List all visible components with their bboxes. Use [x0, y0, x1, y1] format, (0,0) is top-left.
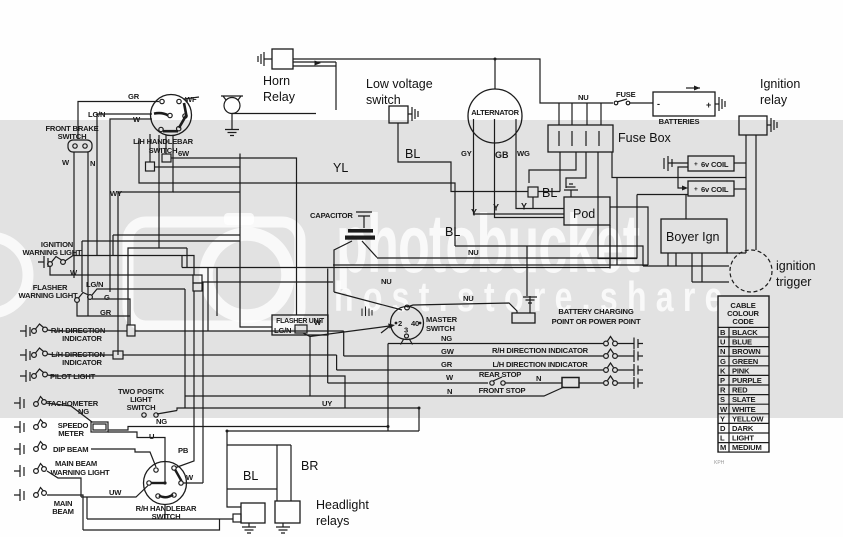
fuse F1 — [614, 99, 630, 105]
svg-text:SWITCH: SWITCH — [152, 512, 181, 521]
wire fusebox top legs — [559, 103, 601, 125]
svg-text:POINT OR POWER POINT: POINT OR POWER POINT — [552, 317, 641, 326]
svg-text:INDICATOR: INDICATOR — [62, 358, 102, 367]
coil L1 6v COIL — [688, 156, 734, 171]
wire boyer bottom legs left — [668, 253, 676, 266]
connector tab headlight relay 1 — [233, 514, 241, 522]
wire fuse to batteries — [630, 102, 653, 104]
svg-text:LG/N: LG/N — [274, 326, 291, 335]
svg-text:ALTERNATOR: ALTERNATOR — [471, 108, 519, 117]
svg-text:NU: NU — [381, 277, 392, 286]
wire master top to battery charge point — [407, 303, 517, 313]
wire boyer top right link — [727, 252, 746, 254]
lamp dip beam — [34, 442, 47, 452]
wire BL box top — [227, 444, 291, 446]
ground G3 under relay K2 — [242, 523, 256, 533]
svg-text:GW: GW — [441, 347, 455, 356]
wire alternator top stem — [494, 59, 496, 89]
wire capacitor left leg — [334, 241, 352, 292]
wire nest h241 — [82, 241, 240, 292]
wire YL bus — [139, 138, 455, 246]
svg-text:DARK: DARK — [732, 424, 754, 433]
ground G6 ignition relay — [767, 118, 777, 132]
svg-text:NU: NU — [578, 93, 589, 102]
wire staircase GR leg — [128, 135, 187, 325]
svg-text:MAIN BEAM: MAIN BEAM — [55, 459, 97, 468]
svg-text:P: P — [720, 376, 725, 385]
cable code rows — [718, 327, 769, 452]
svg-text:METER: METER — [58, 429, 84, 438]
photobucket grey band — [0, 120, 843, 418]
wire coil2 area to NU riser — [637, 194, 688, 196]
wire dip beam to R/H switch — [91, 449, 156, 467]
svg-text:WF: WF — [185, 95, 197, 104]
junction alternator top — [494, 58, 497, 61]
svg-text:DIP BEAM: DIP BEAM — [53, 445, 88, 454]
ground G2 under horn — [225, 130, 239, 136]
switch S3 two position light switch — [142, 411, 177, 418]
svg-text:3: 3 — [404, 326, 408, 335]
terminal R/H direction indicator — [20, 325, 30, 337]
svg-text:SLATE: SLATE — [732, 395, 755, 404]
wire GW row — [344, 355, 603, 357]
svg-text:6v COIL: 6v COIL — [701, 160, 729, 169]
svg-text:G: G — [104, 293, 110, 302]
wire main beam down to bottom bus — [47, 495, 83, 530]
ground G8 above pod — [564, 184, 578, 197]
svg-text:L: L — [720, 434, 725, 443]
svg-text:YELLOW: YELLOW — [732, 414, 764, 423]
svg-text:B: B — [720, 328, 726, 337]
svg-text:ignition: ignition — [776, 259, 816, 273]
svg-text:NU: NU — [468, 248, 479, 257]
wire main beam warning down — [47, 471, 81, 497]
cable colour code table — [718, 296, 769, 452]
wire UW down junction — [86, 497, 88, 519]
lamp GW row — [604, 349, 618, 358]
wire fusebox long leg — [598, 152, 637, 259]
svg-text:CAPACITOR: CAPACITOR — [310, 211, 353, 220]
ground G7 batteries — [719, 97, 725, 111]
svg-text:R/H DIRECTION INDICATOR: R/H DIRECTION INDICATOR — [492, 346, 589, 355]
wire PB leg — [202, 282, 204, 483]
junction dots rows — [226, 407, 421, 433]
terminal tachometer — [14, 397, 24, 409]
wire boyer bottom legs right — [692, 253, 702, 282]
svg-text:S: S — [720, 395, 725, 404]
svg-text:INDICATOR: INDICATOR — [62, 334, 102, 343]
svg-text:Y: Y — [493, 203, 499, 213]
switch S6 rear stop — [490, 377, 505, 385]
switch S4 R/H handlebar switch — [144, 462, 187, 505]
wire ignition relay legs down — [746, 135, 756, 253]
connector J3 double — [193, 275, 202, 291]
terminal ignition warning light — [38, 256, 48, 268]
wire trigger feed lower — [643, 265, 729, 267]
svg-text:GR: GR — [441, 360, 453, 369]
svg-text:host.store.share.: host.store.share. — [334, 273, 750, 320]
svg-text:GB: GB — [495, 150, 509, 160]
svg-text:+: + — [694, 186, 698, 193]
svg-text:N: N — [536, 374, 541, 383]
svg-text:LIGHT: LIGHT — [732, 434, 754, 443]
svg-text:Fuse Box: Fuse Box — [618, 131, 672, 145]
wire GW riser — [343, 331, 345, 356]
wire boyer top feed — [685, 195, 687, 220]
wire tach diagonal to speedo connector — [46, 403, 92, 422]
svg-text:G: G — [720, 357, 726, 366]
wire UY row — [177, 408, 419, 411]
lamp NG row — [604, 337, 618, 346]
svg-text:UW: UW — [109, 488, 122, 497]
svg-text:BLACK: BLACK — [732, 328, 758, 337]
capacitor C1 top trimmer — [356, 212, 372, 228]
connector J6 speedo double — [91, 422, 108, 432]
svg-text:KPH: KPH — [714, 460, 725, 466]
svg-text:BROWN: BROWN — [732, 347, 761, 356]
svg-text:BEAM: BEAM — [52, 507, 74, 516]
relay K1 Horn Relay box — [272, 49, 293, 69]
wire W rh switch up — [183, 482, 203, 484]
svg-text:PURPLE: PURPLE — [732, 376, 762, 385]
wire pod bottom right leg — [609, 225, 611, 269]
svg-text:R: R — [720, 386, 726, 395]
wire L/H dir row left — [47, 354, 113, 355]
wire relay K3 feed 2 — [290, 445, 292, 501]
svg-text:W: W — [720, 405, 728, 414]
connector J4 — [127, 325, 135, 336]
wire bottom bus 519 — [87, 518, 233, 520]
wire G row — [92, 299, 130, 325]
wire W row left — [328, 382, 488, 384]
wire fusebox bottom leg3 — [566, 152, 586, 188]
wire UW row — [81, 486, 148, 498]
svg-text:MEDIUM: MEDIUM — [732, 443, 762, 452]
lamp ignition warning light — [48, 257, 66, 267]
wire LG/N row to flasher unit — [92, 289, 185, 295]
wire batteries to ground — [715, 103, 719, 105]
svg-text:YL: YL — [333, 161, 348, 175]
wire staircase WY leg — [118, 136, 173, 317]
wire long bus y268 — [182, 225, 610, 268]
svg-text:SWITCH: SWITCH — [426, 324, 455, 333]
svg-text:-: - — [657, 99, 660, 109]
wire BL connector down — [532, 197, 534, 209]
wire W riser — [327, 269, 329, 384]
wire NG riser master — [387, 344, 389, 432]
wire capacitor right leg NU — [362, 241, 377, 258]
wire R/H dir row right — [135, 330, 344, 332]
svg-text:6W: 6W — [178, 149, 190, 158]
svg-text:WHITE: WHITE — [732, 405, 756, 414]
wire coil1 to coil2 link — [678, 167, 688, 191]
arrow batteries top — [686, 86, 700, 91]
svg-text:WY: WY — [110, 189, 122, 198]
wire U speedo row — [108, 432, 165, 462]
svg-text:LG/N: LG/N — [86, 280, 103, 289]
svg-text:WARNING LIGHT: WARNING LIGHT — [19, 291, 79, 300]
svg-text:MASTER: MASTER — [426, 315, 458, 324]
wire diag into master top — [334, 292, 402, 310]
wire W row to connector — [50, 267, 193, 276]
wire connector J3 down leg — [176, 291, 194, 468]
relay K3 headlight relay 2 — [275, 501, 300, 523]
svg-text:SWITCH: SWITCH — [127, 403, 156, 412]
wire pilot row — [47, 375, 345, 408]
svg-text:W: W — [70, 268, 78, 277]
svg-text:Boyer Ign: Boyer Ign — [666, 230, 720, 244]
wire flasher unit to master switch with arrow — [303, 324, 395, 337]
svg-text:N: N — [447, 387, 452, 396]
svg-text:Relay: Relay — [263, 90, 296, 104]
box Boyer Ign — [661, 219, 727, 253]
wire coil1 right to relay leg — [734, 162, 746, 164]
symbol III choke — [362, 307, 372, 317]
ground G5 coil — [664, 156, 672, 171]
terminal pilot light — [20, 370, 30, 382]
svg-text:NU: NU — [463, 294, 474, 303]
svg-text:CODE: CODE — [732, 317, 753, 326]
lamp speedo — [34, 420, 47, 430]
wire alternator WG leg — [516, 119, 564, 209]
wire GR L/H switch to front brake — [78, 102, 159, 140]
svg-text:NG: NG — [156, 417, 167, 426]
wire low voltage switch down — [398, 123, 528, 192]
svg-text:D: D — [720, 424, 726, 433]
svg-text:BL: BL — [542, 186, 557, 200]
svg-text:FRONT STOP: FRONT STOP — [479, 386, 526, 395]
svg-text:switch: switch — [366, 93, 401, 107]
wire bus drop to GR link — [216, 268, 218, 317]
wire GR row — [337, 369, 603, 371]
svg-text:Pod: Pod — [573, 207, 595, 221]
connector J8 BL square — [528, 187, 538, 197]
wire N riser — [184, 289, 186, 408]
box flasher unit — [272, 315, 328, 335]
capacitor C1 plates — [345, 229, 375, 240]
terminal dip beam — [14, 443, 24, 455]
svg-text:W: W — [186, 473, 194, 482]
svg-text:W: W — [62, 158, 70, 167]
svg-text:BL: BL — [405, 147, 420, 161]
svg-text:L/H DIRECTION INDICATOR: L/H DIRECTION INDICATOR — [492, 360, 588, 369]
svg-text:40: 40 — [411, 319, 419, 328]
wire alternator GB leg — [495, 119, 565, 218]
svg-text:PINK: PINK — [732, 366, 750, 375]
wire horn relay to horn junction — [293, 62, 336, 110]
wire battery charge drop — [526, 246, 528, 296]
junction dot A — [315, 61, 322, 66]
connector J2 — [162, 154, 171, 162]
lamp main beam warning — [34, 464, 47, 474]
fuse box FB1 — [548, 125, 613, 152]
svg-text:Horn: Horn — [263, 74, 290, 88]
wire N row with diagonal — [185, 387, 564, 396]
svg-text:N: N — [90, 159, 95, 168]
wire BL box mid — [227, 488, 277, 490]
pickup ignition trigger — [730, 250, 772, 292]
svg-text:Y: Y — [521, 202, 527, 212]
wire R/H dir row left — [47, 330, 127, 331]
svg-text:+: + — [706, 100, 711, 110]
terminal GW row — [617, 350, 643, 362]
svg-text:BL: BL — [243, 469, 258, 483]
svg-text:NG: NG — [78, 407, 89, 416]
terminal W row — [617, 377, 643, 389]
coil L2 6v COIL — [688, 181, 734, 196]
wire W row right — [579, 382, 603, 384]
svg-text:Y: Y — [720, 414, 725, 423]
svg-text:Ignition: Ignition — [760, 77, 800, 91]
ground G4 under relay K3 — [276, 523, 290, 533]
ground G9 low voltage switch — [408, 107, 418, 121]
svg-text:trigger: trigger — [776, 275, 811, 289]
wire staircase into flasher — [173, 191, 240, 193]
wire L/H switch leg to connector 2 — [165, 135, 167, 154]
ground G1 horn relay — [258, 52, 272, 66]
switch S7 low voltage switch box — [389, 106, 408, 123]
svg-text:PB: PB — [178, 446, 189, 455]
switch S5 master switch — [391, 305, 424, 344]
label WF — [184, 95, 199, 104]
lamp pilot light — [32, 369, 48, 378]
svg-text:GY: GY — [461, 149, 472, 158]
relay K4 ignition relay — [739, 116, 767, 135]
wire bus drop to RH row — [207, 268, 209, 332]
switch S2 front brake switch — [68, 140, 92, 152]
svg-text:FUSE: FUSE — [616, 90, 636, 99]
svg-text:WARNING LIGHT: WARNING LIGHT — [51, 468, 111, 477]
terminal NG row — [617, 338, 643, 350]
wire fusebox bottom leg1 — [559, 152, 561, 192]
wire connector1 right — [155, 166, 241, 168]
battery charging point box — [512, 313, 535, 323]
connector J1 — [146, 162, 155, 171]
svg-text:2: 2 — [398, 319, 402, 328]
svg-text:relays: relays — [316, 514, 349, 528]
lamp main beam — [34, 488, 47, 498]
relay K2 headlight relay 1 — [241, 503, 265, 523]
wire horn to ground — [232, 114, 242, 130]
lamp tachometer — [34, 397, 47, 407]
terminal main beam — [14, 489, 24, 501]
wire fusebox bottom leg2 — [529, 152, 576, 183]
lamp GR row — [604, 363, 618, 372]
wire nest h235 — [113, 235, 240, 256]
wire NU bus to coil area — [377, 195, 637, 259]
wire LG/N L/H switch down to flasher row — [110, 119, 152, 292]
lamp L/H direction indicator — [32, 348, 48, 357]
connector J5 — [113, 351, 123, 359]
wire horn feed — [242, 113, 316, 115]
wire front brake W down — [73, 152, 75, 278]
svg-text:+: + — [694, 161, 698, 168]
wire bottom bus 528 — [83, 519, 220, 530]
wire front brake N down — [87, 152, 89, 316]
svg-text:WG: WG — [517, 149, 530, 158]
wire NU bus fusebox top — [562, 102, 613, 104]
svg-text:Y: Y — [471, 208, 477, 218]
svg-text:W: W — [446, 373, 454, 382]
wire W L/H switch down to ignition warning row — [97, 114, 152, 256]
wire GR down to LH dir row — [117, 316, 119, 355]
wire L/H dir row right — [123, 354, 337, 356]
wire ignition warning row — [65, 256, 194, 276]
svg-text:BATTERY CHARGING: BATTERY CHARGING — [558, 307, 633, 316]
svg-text:BL: BL — [445, 225, 460, 239]
svg-text:relay: relay — [760, 93, 788, 107]
wire YL extension to boyer area — [455, 246, 643, 266]
wire GR riser — [336, 355, 338, 370]
svg-text:M: M — [720, 443, 726, 452]
wire trigger feed upper — [692, 281, 729, 283]
lamp W row — [604, 376, 618, 385]
box Pod — [564, 197, 610, 225]
connector inside flasher unit — [295, 325, 307, 333]
svg-text:Headlight: Headlight — [316, 498, 369, 512]
wire W row mid — [505, 382, 562, 384]
svg-text:W: W — [314, 318, 322, 327]
wire GR row — [77, 303, 130, 317]
wire NG row — [388, 343, 603, 345]
svg-text:GREEN: GREEN — [732, 357, 758, 366]
wire connector J3 right — [202, 281, 333, 283]
wire relay K3 feed 1 — [276, 445, 278, 501]
wire to BL connector — [538, 191, 560, 193]
lamp R/H direction indicator — [32, 324, 48, 333]
svg-text:Low voltage: Low voltage — [366, 77, 433, 91]
svg-text:BR: BR — [301, 459, 318, 473]
svg-text:RED: RED — [732, 386, 748, 395]
svg-text:BATTERIES: BATTERIES — [659, 117, 700, 126]
switch S1 L/H handlebar switch — [151, 95, 192, 136]
battery BT1 batteries box — [653, 92, 715, 116]
svg-text:UY: UY — [322, 399, 332, 408]
terminal GR row — [617, 364, 643, 376]
watermark partial camera left edge — [0, 237, 28, 313]
battery charging point symbol — [523, 296, 537, 313]
wire 6W to flasher unit top — [171, 158, 297, 315]
svg-text:BLUE: BLUE — [732, 338, 752, 347]
horn H1 — [221, 96, 243, 114]
wire bus 265 — [333, 178, 648, 266]
wire NG speedo row long — [108, 427, 388, 431]
wire L/H switch leg to connector 1 — [149, 134, 151, 162]
terminal speedo — [14, 421, 24, 433]
wire fusebox leg to relay bus — [612, 152, 746, 178]
wire R/H switch bottom leg — [164, 504, 166, 519]
alternator A1 — [468, 89, 522, 143]
svg-text:GR: GR — [128, 92, 140, 101]
wire alternator GY leg — [474, 119, 565, 214]
lamp flasher warning light — [75, 293, 93, 303]
wire flasher unit input — [240, 154, 272, 328]
wire bus A horn relay to fuse line — [293, 59, 562, 103]
svg-text:L/H HANDLEBAR: L/H HANDLEBAR — [133, 137, 194, 146]
svg-text:U: U — [149, 432, 155, 441]
wire UY down leg — [418, 408, 420, 431]
svg-text:N: N — [720, 347, 725, 356]
terminal main beam warning — [14, 465, 24, 477]
wire flasher leg down — [309, 337, 311, 397]
wire coil2 right link — [734, 188, 746, 190]
svg-text:U: U — [720, 338, 726, 347]
terminal L/H direction indicator — [20, 349, 30, 361]
connector J7 stop lamp — [562, 378, 579, 388]
wire ground to coil 1 — [668, 162, 688, 164]
wire bottom bus to BL box — [227, 431, 419, 507]
watermark camera icon — [128, 213, 300, 326]
